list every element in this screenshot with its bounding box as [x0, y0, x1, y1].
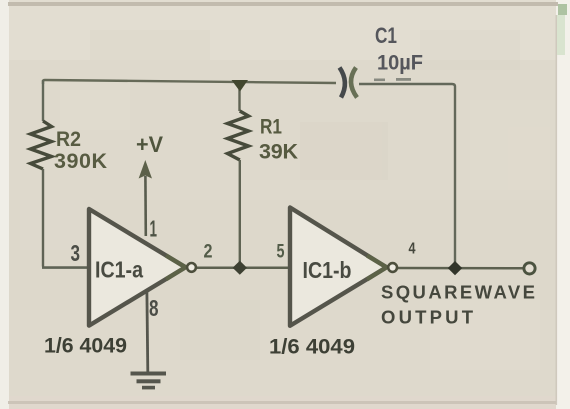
wire pin 2 to pin 5	[196, 267, 289, 270]
wire capacitor right to corner and down	[359, 84, 455, 266]
svg-text:390K: 390K	[54, 149, 107, 173]
subtle mottling	[20, 30, 550, 370]
ground symbol	[131, 372, 167, 390]
wire R1 bottom to node	[239, 160, 241, 268]
wire to pin 3	[42, 266, 88, 269]
resistor R2	[31, 121, 52, 169]
svg-text:39K: 39K	[259, 140, 298, 164]
wire R1 top stub	[238, 83, 240, 111]
svg-text:R1: R1	[260, 116, 282, 139]
inverter IC1-b output bubble (pin 4)	[388, 263, 397, 272]
wire top feedback from R2 corner to capacitor	[43, 80, 336, 84]
svg-text:1: 1	[150, 216, 158, 242]
inverter IC1-b	[290, 208, 387, 326]
wire left vertical above R2	[42, 80, 44, 121]
svg-text:R2: R2	[56, 128, 81, 151]
scan artifact dashes	[374, 79, 385, 82]
node junction output/C1	[448, 261, 462, 275]
inverter IC1-a output bubble (pin 2)	[187, 263, 196, 272]
inverter IC1-b tip accent	[367, 256, 387, 280]
inverter IC1-a	[89, 209, 186, 326]
svg-text:10µF: 10µF	[377, 52, 423, 75]
capacitor C1	[340, 68, 345, 98]
output terminal node	[524, 263, 535, 274]
svg-text:4: 4	[409, 241, 416, 258]
wire pin 4 to output terminal	[397, 267, 525, 270]
+V supply arrow	[139, 160, 152, 179]
resistor R1	[228, 111, 249, 160]
svg-text:3: 3	[71, 240, 81, 266]
svg-text:IC1-b: IC1-b	[303, 257, 352, 283]
node junction pin2/R1	[233, 261, 247, 275]
svg-text:5: 5	[277, 242, 285, 263]
svg-text:+V: +V	[136, 132, 163, 157]
svg-text:1/6 4049: 1/6 4049	[269, 335, 355, 359]
wire left vertical below R2	[42, 169, 44, 267]
svg-text:2: 2	[204, 242, 213, 263]
wire +V to pin 1	[144, 176, 147, 236]
wire pin 8 to ground	[145, 292, 149, 372]
svg-text:C1: C1	[375, 23, 397, 48]
svg-text:8: 8	[149, 295, 159, 321]
svg-text:IC1-a: IC1-a	[95, 257, 143, 283]
svg-text:1/6 4049: 1/6 4049	[44, 334, 127, 358]
node junction R1/feedback wire	[232, 80, 249, 92]
inverter IC1-a tip accent	[166, 256, 186, 280]
